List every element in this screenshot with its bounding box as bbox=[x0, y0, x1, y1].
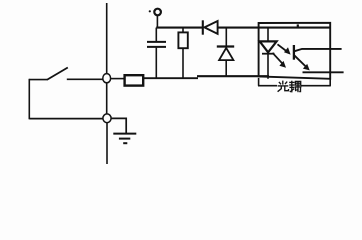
label bracket left bbox=[258, 85, 277, 87]
wire: switch left lead bbox=[29, 79, 47, 81]
耦 bbox=[289, 81, 294, 83]
wire: node A to node B bbox=[106, 83, 108, 114]
diode D1 bbox=[204, 21, 217, 34]
wire: rail below node B bbox=[106, 123, 108, 164]
LED cathode bar bbox=[262, 53, 275, 55]
node B bbox=[103, 114, 111, 123]
node A bbox=[103, 74, 111, 83]
wire: left return bottom horizontal to node B bbox=[29, 118, 103, 120]
wire: zener branch lead bbox=[225, 28, 227, 46]
resistor R2 top stub bbox=[182, 28, 184, 33]
wire: zener bottom lead bbox=[225, 60, 227, 76]
ground bbox=[113, 134, 136, 144]
wire: top bus left section bbox=[156, 27, 203, 29]
supply terminal O bbox=[154, 9, 161, 16]
zener diode D2 bbox=[219, 48, 233, 60]
switch S1 blade bbox=[47, 68, 68, 80]
zener diode D2 cathode bar bbox=[217, 45, 234, 47]
supply terminal dot bbox=[149, 10, 151, 12]
tick on U1 top edge bbox=[297, 24, 299, 27]
phototransistor base bar bbox=[293, 45, 295, 60]
wire: capacitor C1 bottom lead bbox=[155, 48, 157, 78]
wire: U1 left edge extension to label bracket bbox=[258, 78, 260, 86]
wire: resistor R2 bottom lead bbox=[182, 48, 184, 77]
light arrow 2 bbox=[273, 53, 287, 68]
wire: node A to resistor R1 bbox=[111, 78, 124, 80]
wire: U1 right edge extension to label bracket bbox=[329, 78, 331, 86]
phototransistor collector bbox=[295, 49, 342, 51]
wire: lower bus right section bbox=[197, 75, 269, 77]
resistor R1 bbox=[125, 75, 144, 85]
label bracket right bbox=[301, 85, 331, 87]
capacitor C1 top lead bbox=[155, 28, 157, 42]
wire: LED anode lead bbox=[267, 28, 269, 41]
wire: left return vertical bbox=[28, 79, 30, 120]
光 bbox=[282, 81, 284, 85]
LED of optocoupler U1 bbox=[260, 41, 277, 52]
diode D1 cathode bar bbox=[202, 20, 204, 34]
wire: LED cathode lead bbox=[267, 52, 269, 79]
resistor R2 bbox=[178, 32, 187, 48]
optocoupler U1 box bbox=[259, 23, 331, 79]
wire: switch right lead to node A bbox=[67, 78, 103, 80]
phototransistor emitter bbox=[295, 56, 344, 73]
wire: supply lead down bbox=[156, 16, 158, 29]
wire: main vertical rail above node A bbox=[106, 3, 108, 74]
label "光耦" (optocoupler) drawn as strokes bbox=[278, 81, 302, 93]
light arrow 1 bbox=[278, 44, 291, 54]
wire: R1 to lower bus bbox=[144, 77, 198, 79]
capacitor C1 bbox=[147, 42, 166, 47]
wire: top bus right section bbox=[219, 27, 331, 29]
wire: node B to ground bbox=[111, 118, 126, 133]
